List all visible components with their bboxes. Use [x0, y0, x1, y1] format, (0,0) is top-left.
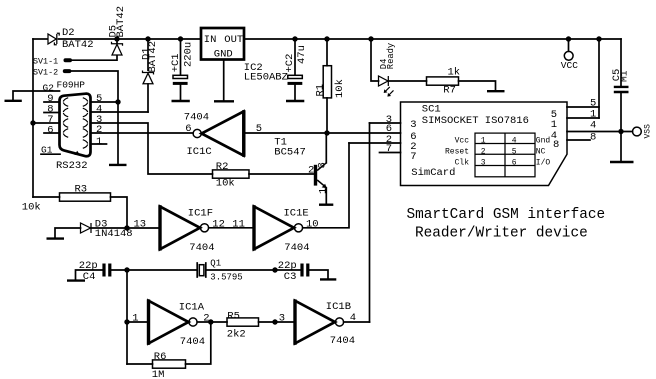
wire IC1E out to SC1 reset — [303, 143, 349, 228]
svg-text:5: 5 — [512, 147, 517, 156]
svg-text:2: 2 — [481, 147, 486, 156]
junction D5 top — [114, 36, 119, 41]
contact pin2 — [83, 129, 88, 138]
LED D4 — [379, 76, 394, 97]
wire R3 to D3 node — [111, 197, 128, 228]
wire left rail (rail to R3) — [32, 39, 34, 197]
svg-text:R5: R5 — [227, 310, 240, 322]
transistor T1 — [314, 163, 327, 189]
wire SC1 pin7 stub — [380, 152, 401, 154]
svg-text:7404: 7404 — [189, 242, 214, 254]
connector X1 F09HP body — [60, 94, 91, 157]
contact pin5 — [83, 98, 88, 107]
wire IC1A out to R5 — [197, 321, 227, 323]
wire VCC rail left segment — [33, 38, 47, 40]
ground bar SV1-2 / pin5 — [109, 164, 127, 166]
svg-text:F09HP: F09HP — [57, 80, 86, 91]
ground bar C4 — [67, 279, 85, 281]
wire pin8 stub — [44, 112, 60, 114]
svg-text:SC1: SC1 — [422, 104, 441, 116]
svg-text:M1: M1 — [619, 70, 630, 82]
svg-text:C3: C3 — [284, 271, 297, 283]
wire pin6 stub — [44, 132, 60, 134]
inverter IC1F — [158, 205, 208, 250]
contact pin1 — [83, 140, 88, 149]
inverter IC1E — [252, 205, 302, 250]
node VSS terminal — [633, 127, 642, 136]
ground bar R7 — [487, 90, 505, 92]
capacitor C2 — [288, 39, 303, 100]
inverter IC1B — [293, 299, 343, 344]
svg-text:SIMSOCKET ISO7816: SIMSOCKET ISO7816 — [422, 115, 529, 127]
wire C4 to Q1 — [112, 269, 197, 271]
contact pin7 — [63, 119, 68, 128]
ground bar D3 — [47, 237, 65, 239]
junction R5 / oscillator column — [272, 319, 277, 324]
resistor R3 — [60, 193, 111, 201]
svg-text:R7: R7 — [443, 84, 456, 96]
contact pin9 — [63, 98, 68, 107]
svg-text:7404: 7404 — [284, 242, 309, 254]
contact pin8 — [63, 108, 68, 117]
resistor R7 — [427, 77, 459, 85]
wire D1 anode to RS232 pin4 — [147, 84, 149, 112]
svg-text:10k: 10k — [216, 177, 235, 189]
junction pin1 column — [596, 36, 601, 41]
wire rail to D1 cathode — [147, 39, 149, 70]
resistor R1 — [323, 39, 331, 133]
svg-text:1: 1 — [96, 136, 102, 148]
wire pin1 stub — [91, 143, 107, 145]
svg-text:R2: R2 — [216, 161, 229, 173]
svg-text:G2: G2 — [43, 83, 55, 94]
junction T1 collector node — [324, 130, 329, 135]
junction C1 top — [178, 36, 183, 41]
wire pin1 column VCC — [598, 39, 600, 118]
svg-text:+C1: +C1 — [170, 53, 182, 72]
junction VCC stub — [566, 36, 571, 41]
wire SC1 pin4 to VSS — [567, 131, 632, 133]
pad SV1-1 — [64, 58, 73, 62]
svg-text:Reset: Reset — [445, 147, 469, 156]
svg-text:3: 3 — [481, 158, 486, 167]
svg-text:Clk: Clk — [455, 158, 470, 167]
wire VCC rail right of IC2 OUT — [245, 38, 622, 40]
wire R6 feedback — [186, 322, 211, 364]
svg-text:Q1: Q1 — [210, 259, 221, 269]
svg-text:IC1A: IC1A — [179, 301, 205, 313]
svg-text:7404: 7404 — [180, 336, 205, 348]
svg-text:1M: 1M — [152, 369, 165, 379]
wire left rail to R3 — [33, 196, 60, 198]
wire G2 shell to ground — [13, 91, 60, 100]
wire IC2 GND to ground — [223, 60, 225, 101]
junction C3 / IC1B input — [272, 267, 277, 272]
junction C2 top — [292, 36, 297, 41]
svg-text:NC: NC — [536, 147, 546, 156]
svg-text:Vcc: Vcc — [455, 136, 470, 145]
svg-text:Gnd: Gnd — [536, 136, 551, 145]
svg-text:BAT42: BAT42 — [115, 6, 127, 38]
diode D3 — [81, 223, 92, 233]
diode D1 — [143, 71, 154, 84]
svg-text:Reader/Writer device: Reader/Writer device — [415, 226, 588, 242]
wire D5 anode to SV1-1 row — [72, 55, 118, 60]
svg-text:2: 2 — [308, 164, 314, 176]
capacitor C1 — [173, 39, 188, 100]
svg-text:7404: 7404 — [330, 335, 355, 347]
svg-text:2k2: 2k2 — [227, 328, 246, 340]
contact pin4 — [83, 108, 88, 117]
wire SC1 pin5 to VCC column — [567, 106, 599, 108]
wire IC1F out to IC1E in — [209, 227, 254, 229]
junction C5 / VSS — [618, 129, 623, 134]
wire C3 to ground — [310, 270, 329, 278]
svg-text:IN: IN — [204, 34, 217, 46]
svg-text:SmartCard GSM interface: SmartCard GSM interface — [407, 207, 606, 223]
wire D4 branch down — [371, 39, 379, 81]
svg-text:IC1E: IC1E — [284, 208, 309, 220]
contact pin6 — [63, 129, 68, 138]
wire D2 cathode to IC2 IN — [59, 38, 201, 40]
wire pin3 to R2 — [91, 123, 213, 174]
wire pin9 stub — [44, 101, 60, 103]
ground bar T1 — [319, 203, 333, 205]
wire R5 to IC1B input — [259, 321, 296, 323]
junction D3 / R3 / IC1F input — [124, 225, 129, 230]
svg-text:SV1-1: SV1-1 — [33, 56, 58, 66]
wire to IC1A input — [127, 321, 149, 323]
inverter IC1C (points left) — [193, 110, 245, 157]
simcard socket SC1 body — [401, 102, 568, 186]
capacitor C4 — [104, 264, 110, 277]
junction R1 top — [324, 36, 329, 41]
junction IC1A input / R6 — [124, 319, 129, 324]
svg-text:4: 4 — [590, 119, 596, 131]
wire pin7 to left rail — [33, 122, 60, 124]
wire node to IC1F input — [91, 227, 160, 229]
junction D1 top — [145, 36, 150, 41]
svg-text:RS232: RS232 — [56, 160, 88, 172]
svg-text:R3: R3 — [75, 184, 88, 196]
crystal Q1 — [197, 263, 206, 277]
wire SC1 pin8 stub — [567, 139, 590, 141]
svg-text:1k: 1k — [448, 67, 461, 79]
pad SV1-2 — [63, 69, 72, 73]
svg-text:47u: 47u — [296, 45, 308, 64]
svg-text:7404: 7404 — [184, 112, 209, 124]
svg-text:SimCard: SimCard — [411, 167, 455, 179]
svg-text:7: 7 — [410, 151, 416, 163]
svg-text:I/O: I/O — [536, 158, 551, 167]
svg-text:VSS: VSS — [644, 124, 653, 139]
junction RS232 pin5 / ground column — [115, 99, 120, 104]
wire pin4 to D1 — [91, 111, 149, 113]
svg-text:6: 6 — [47, 124, 53, 136]
wire SV1-2 to ground column — [71, 71, 118, 165]
contact pin3 — [83, 119, 88, 128]
resistor R2 — [213, 170, 250, 178]
svg-text:C4: C4 — [83, 271, 96, 283]
svg-text:+C2: +C2 — [284, 54, 296, 73]
svg-text:3: 3 — [279, 312, 285, 324]
svg-text:3: 3 — [410, 119, 416, 131]
wire clock net down to IC1B — [369, 123, 371, 322]
svg-text:3.5795: 3.5795 — [210, 273, 242, 283]
wire IC1B out to clock column — [344, 321, 370, 323]
svg-text:BAT42: BAT42 — [62, 39, 94, 51]
inverter IC1A — [147, 299, 197, 344]
svg-text:LE50ABZ: LE50ABZ — [244, 72, 288, 84]
pin table grid — [475, 133, 535, 177]
wire Q1 to C3 — [207, 269, 301, 271]
svg-text:IC1B: IC1B — [326, 301, 351, 313]
wire SC1 pin1 to VCC column — [567, 117, 599, 119]
svg-text:2: 2 — [96, 124, 102, 136]
wire oscillator node down to IC1A input — [126, 270, 128, 364]
junction IC1A output / R6 — [208, 319, 213, 324]
capacitor C5 — [614, 39, 629, 161]
ground bar C1 — [172, 100, 190, 102]
svg-text:6: 6 — [185, 123, 191, 135]
junction RS232 pin7 on left rail — [30, 120, 35, 125]
wire R7 to ground — [459, 81, 496, 90]
svg-text:IC1C: IC1C — [187, 146, 212, 158]
svg-text:4: 4 — [512, 136, 517, 145]
svg-text:VCC: VCC — [561, 60, 578, 71]
regulator IC2 box — [201, 28, 244, 60]
wire G1 stub — [41, 153, 60, 155]
svg-text:1: 1 — [317, 188, 329, 194]
capacitor C3 — [302, 264, 308, 277]
resistor R5 — [227, 318, 259, 326]
wire IC1C input / IO net to SC1 pin6 — [245, 132, 401, 134]
wire T1 collector up — [325, 133, 327, 163]
diode D5 — [112, 42, 123, 55]
svg-text:D2: D2 — [62, 27, 75, 39]
svg-text:220u: 220u — [182, 42, 194, 67]
connector bottom notch — [75, 151, 81, 155]
wire pin2 to IC1C output — [91, 132, 194, 134]
wire D4 cathode to R7 — [389, 80, 427, 82]
svg-text:10k: 10k — [334, 79, 346, 98]
svg-text:GND: GND — [214, 48, 233, 60]
svg-text:Ready: Ready — [386, 43, 396, 69]
svg-text:IC1F: IC1F — [188, 208, 213, 220]
ground bar IC2 — [214, 100, 234, 102]
svg-text:8: 8 — [553, 139, 559, 151]
resistor R6 — [153, 360, 186, 368]
ground bar G2 — [5, 100, 22, 102]
svg-text:10k: 10k — [22, 202, 41, 214]
svg-text:6: 6 — [512, 158, 517, 167]
svg-text:R6: R6 — [154, 351, 167, 363]
diode D2 — [48, 33, 59, 45]
svg-text:R1: R1 — [314, 84, 326, 97]
ground stub D3 — [55, 228, 81, 238]
junction D4 branch — [368, 36, 373, 41]
ground bar C5 / VSS — [610, 161, 634, 163]
ground C4 — [76, 270, 104, 280]
wire SC1 pin2 reset stub — [349, 142, 401, 144]
svg-text:8: 8 — [590, 131, 596, 143]
ground bar C3 — [320, 278, 336, 280]
ground bar C2 — [286, 100, 304, 102]
wire pin5 to ground column — [91, 101, 119, 103]
wire D5 cathode to rail — [116, 39, 118, 44]
wire SC1 pin3 clock stub — [370, 122, 401, 124]
svg-text:1: 1 — [481, 136, 486, 145]
svg-text:11: 11 — [232, 218, 245, 230]
svg-text:OUT: OUT — [224, 34, 243, 46]
wire T1 emitter to ground — [325, 188, 327, 204]
wire R2 to T1 base — [249, 173, 314, 175]
svg-text:BC547: BC547 — [274, 147, 306, 159]
junction C4 / IC1A input — [124, 267, 129, 272]
node VCC terminal — [564, 39, 573, 60]
svg-text:SV1-2: SV1-2 — [33, 67, 58, 77]
wire R6 to IC1A input column — [127, 363, 153, 365]
